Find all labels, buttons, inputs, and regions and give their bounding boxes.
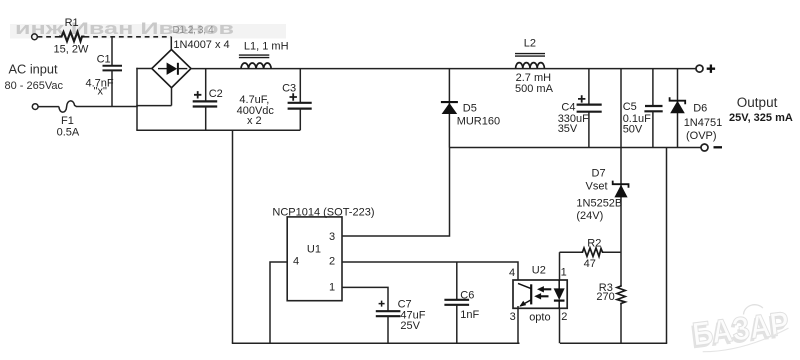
wire bridge left vertex to vertical [136,68,152,70]
capacitor C6 [456,262,458,299]
svg-text:C5: C5 [623,101,637,113]
wire bridge bottom vertex lead [171,88,173,106]
wire bridge top lead [170,37,172,50]
node AC bottom terminal [32,104,38,110]
svg-text:4: 4 [509,267,515,279]
svg-text:D5: D5 [463,103,477,115]
wire pin3 to switch node [342,148,450,237]
inductor L1 [241,63,271,69]
capacitor C3 [299,69,301,103]
label plus sign [707,65,715,73]
watermark band [10,24,286,39]
svg-text:D1-2, 3, 4: D1-2, 3, 4 [173,25,215,36]
wire minus rail to bottom rail [666,148,668,344]
wire negative output rail [449,147,701,149]
resistor R2 [581,248,604,256]
opto phototransistor [518,283,531,288]
svg-text:80 - 265Vac: 80 - 265Vac [5,80,64,92]
capacitor C5 [652,69,654,106]
svg-text:Output: Output [737,95,778,110]
capacitor C4 [588,69,590,105]
node plus output terminal [696,65,703,72]
wire main positive rail [191,68,696,70]
svg-text:(OVP): (OVP) [686,130,717,142]
wire R2 net [560,251,582,253]
node minus output terminal [701,144,708,151]
svg-text:U2: U2 [532,265,546,277]
svg-text:C6: C6 [460,290,474,302]
svg-text:C4: C4 [561,101,575,113]
zener diode D6 [677,69,679,148]
svg-text:4.7uF,: 4.7uF, [239,94,269,106]
capacitor C1 [111,37,113,66]
wire AC bottom left [38,106,59,108]
svg-text:3: 3 [329,231,335,243]
svg-text:1N4751: 1N4751 [684,117,723,129]
svg-text:1N4007 x 4: 1N4007 x 4 [173,39,229,51]
svg-text:25V: 25V [400,320,420,332]
svg-text:4: 4 [293,256,299,268]
svg-text:D6: D6 [693,103,707,115]
wire dashed AC top right [85,36,172,38]
diode D5 [448,69,450,148]
svg-text:R1: R1 [65,17,79,29]
capacitor C2 [205,69,207,101]
svg-text:1nF: 1nF [460,309,479,321]
svg-text:"x": "x" [94,86,107,98]
svg-text:1N5252B: 1N5252B [576,198,622,210]
svg-text:3: 3 [510,311,516,323]
svg-text:AC input: AC input [9,62,59,77]
svg-text:D7: D7 [592,167,606,179]
wire opto pin3 down [517,306,519,343]
wire dashed AC top left [38,36,59,38]
node AC top terminal [32,34,38,40]
wire bottom rail right [560,342,667,344]
svg-text:1: 1 [561,267,567,279]
op-amp U1 NCP1014 box [287,217,342,301]
wire opto pin2 down [559,308,561,343]
svg-text:Vset: Vset [586,181,608,193]
opto light arrows [543,288,551,290]
wire pin2 to opto [342,262,518,280]
svg-text:x 2: x 2 [247,115,262,127]
inductor L2 [516,63,545,69]
svg-text:47: 47 [584,258,596,270]
svg-text:C1: C1 [97,53,111,65]
svg-text:500 mA: 500 mA [515,83,554,95]
svg-text:C3: C3 [282,83,296,95]
wire left vertical [136,68,138,130]
svg-text:NCP1014 (SOT-223): NCP1014 (SOT-223) [272,206,374,218]
svg-text:C7: C7 [398,298,412,310]
bridge rectifier D1-2,3,4 [152,50,191,88]
wire drop to bottom rail [232,130,234,343]
svg-text:L1, 1 mH: L1, 1 mH [244,40,289,52]
wire jog bottom vertex to left vertical [136,105,171,107]
svg-text:MUR160: MUR160 [457,116,500,128]
capacitor C7 [376,310,401,312]
zener diode D7 Vset [613,181,629,188]
resistor R3 [617,285,625,305]
svg-text:U1: U1 [307,244,321,256]
svg-text:C2: C2 [209,88,223,100]
svg-text:2: 2 [329,256,335,268]
wire bottom rail left [232,342,520,344]
opto U2 box [513,280,567,308]
svg-text:1: 1 [329,282,335,294]
wire feedback vertical [620,69,622,285]
svg-text:0.5A: 0.5A [57,126,80,138]
svg-text:35V: 35V [558,123,578,135]
opto led [558,280,560,289]
wire negative rail under bridge [136,129,300,131]
svg-text:2: 2 [561,311,567,323]
svg-text:15, 2W: 15, 2W [54,44,89,56]
wire AC bottom right [76,106,138,108]
svg-text:270: 270 [596,291,614,303]
label minus sign [714,146,723,148]
fuse F1 [59,101,76,112]
svg-text:50V: 50V [623,124,643,136]
watermark bazar logo [688,301,791,356]
wire pin1 [342,287,388,310]
svg-text:(24V): (24V) [576,210,603,222]
svg-text:R2: R2 [587,237,601,249]
svg-text:opto: opto [529,312,550,324]
svg-text:F1: F1 [61,115,74,127]
wire pin4 loop [270,262,287,343]
resistor R1 [59,32,85,41]
svg-text:25V, 325 mA: 25V, 325 mA [729,112,793,124]
wire opto pin1 up [559,252,561,280]
svg-text:L2: L2 [524,38,536,50]
